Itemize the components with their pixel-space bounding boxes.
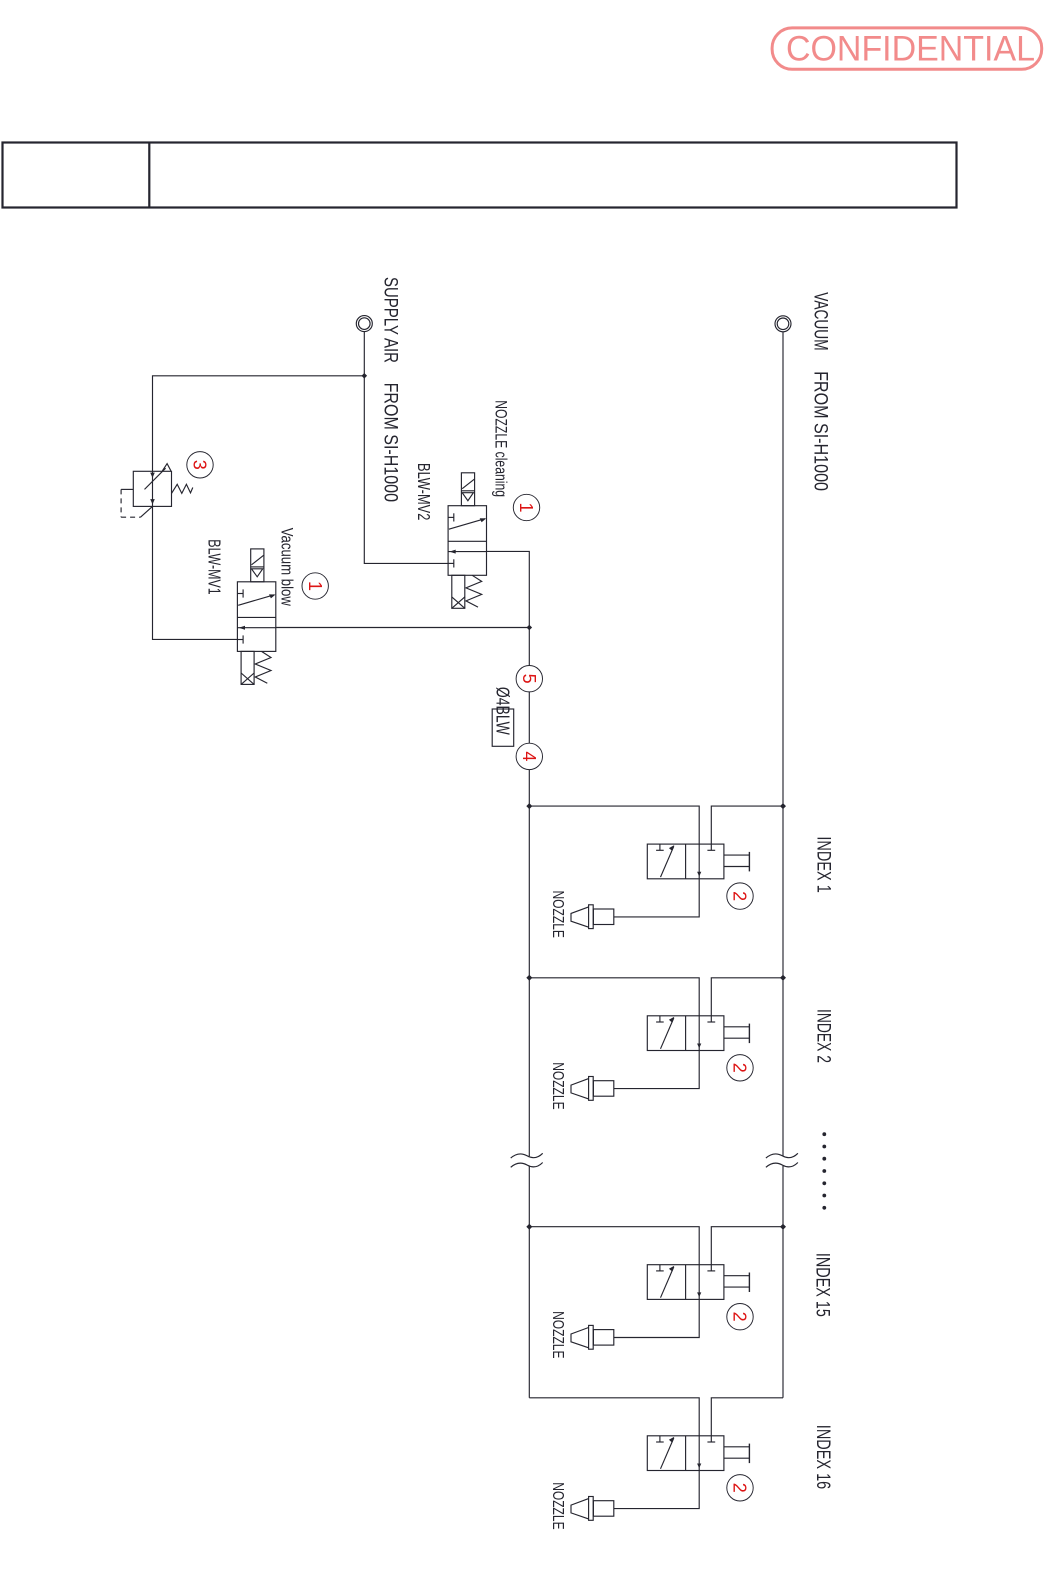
flow diagonal (left cell) [661, 846, 674, 877]
wire: INDEX valve to vacuum line (INDEX 2) [711, 978, 783, 1022]
nozzle N-INDEX 2 [593, 1081, 613, 1097]
valve BLW-MV2 [448, 473, 486, 609]
svg-text:NOZZLE: NOZZLE [549, 1311, 566, 1358]
solenoid pilot box [251, 549, 264, 582]
regulator R3 body [133, 471, 171, 506]
svg-text:INDEX 16: INDEX 16 [812, 1425, 833, 1489]
regulator pilot dashed line [121, 488, 133, 490]
flow path (bottom cell) [448, 551, 486, 553]
svg-text:INDEX 15: INDEX 15 [812, 1253, 833, 1317]
wire: blow manifold vertical [528, 806, 530, 1156]
svg-text:NOZZLE: NOZZLE [549, 891, 566, 938]
node: blow tap (INDEX 2) [526, 975, 532, 981]
svg-text:NOZZLE: NOZZLE [549, 1062, 566, 1109]
svg-text:2: 2 [730, 891, 750, 901]
return spring [466, 575, 482, 607]
inlet port (bottom cell) [448, 562, 454, 564]
wire: through regulator [152, 471, 154, 506]
node: blow tap (INDEX 1) [526, 803, 532, 809]
svg-text:Ø4BLW: Ø4BLW [493, 687, 513, 735]
wire: supply branch to regulator [153, 376, 365, 472]
flow path through right cell [698, 1265, 700, 1300]
tube label box [492, 709, 514, 746]
circled 3 [187, 452, 213, 478]
wire: BLW-MV1 outlet to node A [276, 627, 530, 629]
svg-text:SUPPLY AIR: SUPPLY AIR [380, 277, 401, 363]
valve BLW-MV1 [237, 549, 275, 685]
regulator spring [172, 484, 193, 493]
svg-text:1: 1 [516, 502, 536, 512]
title table [3, 143, 957, 208]
nozzle N-INDEX 15 [593, 1330, 613, 1346]
wire: blow line to INDEX valve (INDEX 1) [529, 806, 699, 844]
svg-text:1: 1 [305, 581, 325, 591]
blocked port (top cell) [448, 516, 454, 518]
valve V-INDEX 2 body [647, 1016, 724, 1051]
break mark (vacuum line) [766, 1153, 798, 1158]
wire: INDEX valve to vacuum line (INDEX 16) [711, 1398, 783, 1442]
wire: valve outlet to nozzle (INDEX 16) [614, 1471, 699, 1509]
svg-text:INDEX 1: INDEX 1 [813, 836, 834, 892]
nozzle N-INDEX 16 [593, 1501, 613, 1517]
circled 5 [516, 666, 542, 692]
svg-text:FROM SI-H1000: FROM SI-H1000 [810, 371, 831, 491]
wire: blow line to INDEX valve (INDEX 16) [529, 1398, 699, 1436]
inlet port (bottom cell) [237, 639, 243, 641]
svg-text:NOZZLE cleaning: NOZZLE cleaning [491, 400, 509, 497]
wire: valve outlet to nozzle (INDEX 15) [614, 1299, 699, 1337]
svg-text:NOZZLE: NOZZLE [549, 1482, 566, 1529]
actuator plunger (INDEX 2) [724, 1026, 750, 1028]
wire: INDEX valve to vacuum line (INDEX 15) [711, 1227, 783, 1271]
flow diagonal (left cell) [661, 1267, 674, 1298]
circled 4 [516, 743, 542, 769]
wire: vacuum manifold vertical [782, 332, 784, 1156]
flow diagonal (left cell) [661, 1018, 674, 1049]
valve body [237, 582, 275, 652]
ellipsis dots (more indexes) [822, 1132, 826, 1136]
wire: INDEX valve to vacuum line (INDEX 1) [711, 806, 783, 850]
svg-text:FROM SI-H1000: FROM SI-H1000 [380, 383, 401, 502]
CONFIDENTIAL stamp [772, 28, 1042, 69]
wire: regulator to BLW-MV1 inlet [153, 506, 238, 639]
wire: blow line to INDEX valve (INDEX 2) [529, 978, 699, 1016]
svg-text:Vacuum blow: Vacuum blow [278, 528, 296, 606]
wire: valve outlet to nozzle (INDEX 1) [614, 879, 699, 917]
circled 2 (INDEX 2) [727, 1055, 753, 1081]
wire: supply junction to BLW-MV2 inlet [364, 376, 448, 564]
flow path through right cell [698, 1436, 700, 1471]
blocked port (left cell) [659, 844, 661, 850]
node A: blow junction [527, 625, 533, 631]
circled 1 (BLW-MV1) [302, 573, 328, 599]
flow path through right cell [698, 844, 700, 879]
svg-text:3: 3 [190, 460, 210, 470]
flow diagonal (top cell) [449, 519, 485, 530]
svg-text:INDEX 2: INDEX 2 [813, 1009, 834, 1063]
connector P1: SUPPLY AIR port [356, 316, 372, 332]
regulator flow arrowheads [150, 473, 155, 478]
valve V-INDEX 1 body [647, 844, 724, 879]
node: vacuum tap (INDEX 2) [780, 975, 786, 981]
svg-text:BLW-MV2: BLW-MV2 [414, 463, 434, 520]
flow path (bottom cell) [237, 627, 275, 629]
circled 2 (INDEX 16) [727, 1475, 753, 1501]
wire: blow line to INDEX valve (INDEX 15) [529, 1227, 699, 1265]
flow diagonal (top cell) [238, 595, 274, 606]
flow path through right cell [698, 1016, 700, 1051]
svg-text:BLW-MV1: BLW-MV1 [205, 539, 225, 594]
valve V-INDEX 16 body [647, 1436, 724, 1471]
svg-text:2: 2 [730, 1312, 750, 1322]
node: vacuum tap (INDEX 1) [780, 803, 786, 809]
blocked port (left cell) [659, 1016, 661, 1022]
wire: supply port to junction [363, 332, 365, 376]
return spring [255, 651, 271, 683]
svg-text:2: 2 [730, 1483, 750, 1493]
exhaust port box with plug [241, 651, 254, 684]
actuator plunger (INDEX 1) [724, 854, 750, 856]
flow diagonal (left cell) [661, 1438, 674, 1469]
wire: valve outlet to nozzle (INDEX 2) [614, 1051, 699, 1089]
wire: node A down to blow manifold [528, 628, 530, 807]
solenoid pilot box [461, 473, 474, 506]
node: vacuum tap (INDEX 15) [780, 1224, 786, 1230]
svg-text:CONFIDENTIAL: CONFIDENTIAL [786, 30, 1035, 69]
svg-text:2: 2 [730, 1063, 750, 1073]
svg-text:VACUUM: VACUUM [810, 292, 831, 350]
circled 1 (BLW-MV2) [513, 494, 539, 520]
valve body [448, 506, 486, 576]
blocked port (left cell) [659, 1436, 661, 1442]
break mark (blow line) [511, 1153, 543, 1158]
actuator plunger (INDEX 16) [724, 1446, 750, 1448]
node: blow tap (INDEX 15) [526, 1224, 532, 1230]
regulator adjustment arrow [145, 468, 166, 489]
blocked port (left cell) [659, 1265, 661, 1271]
node: supply junction [362, 373, 368, 379]
exhaust port box with plug [452, 575, 465, 608]
wire: BLW-MV2 outlet down to node A [487, 551, 530, 627]
circled 2 (INDEX 15) [727, 1304, 753, 1330]
svg-text:4: 4 [519, 751, 539, 761]
connector P2: VACUUM port [775, 316, 791, 332]
nozzle N-INDEX 1 [593, 909, 613, 925]
blocked port (top cell) [237, 593, 243, 595]
valve V-INDEX 15 body [647, 1265, 724, 1300]
actuator plunger (INDEX 15) [724, 1275, 750, 1277]
circled 2 (INDEX 1) [727, 883, 753, 909]
svg-text:5: 5 [519, 674, 539, 684]
